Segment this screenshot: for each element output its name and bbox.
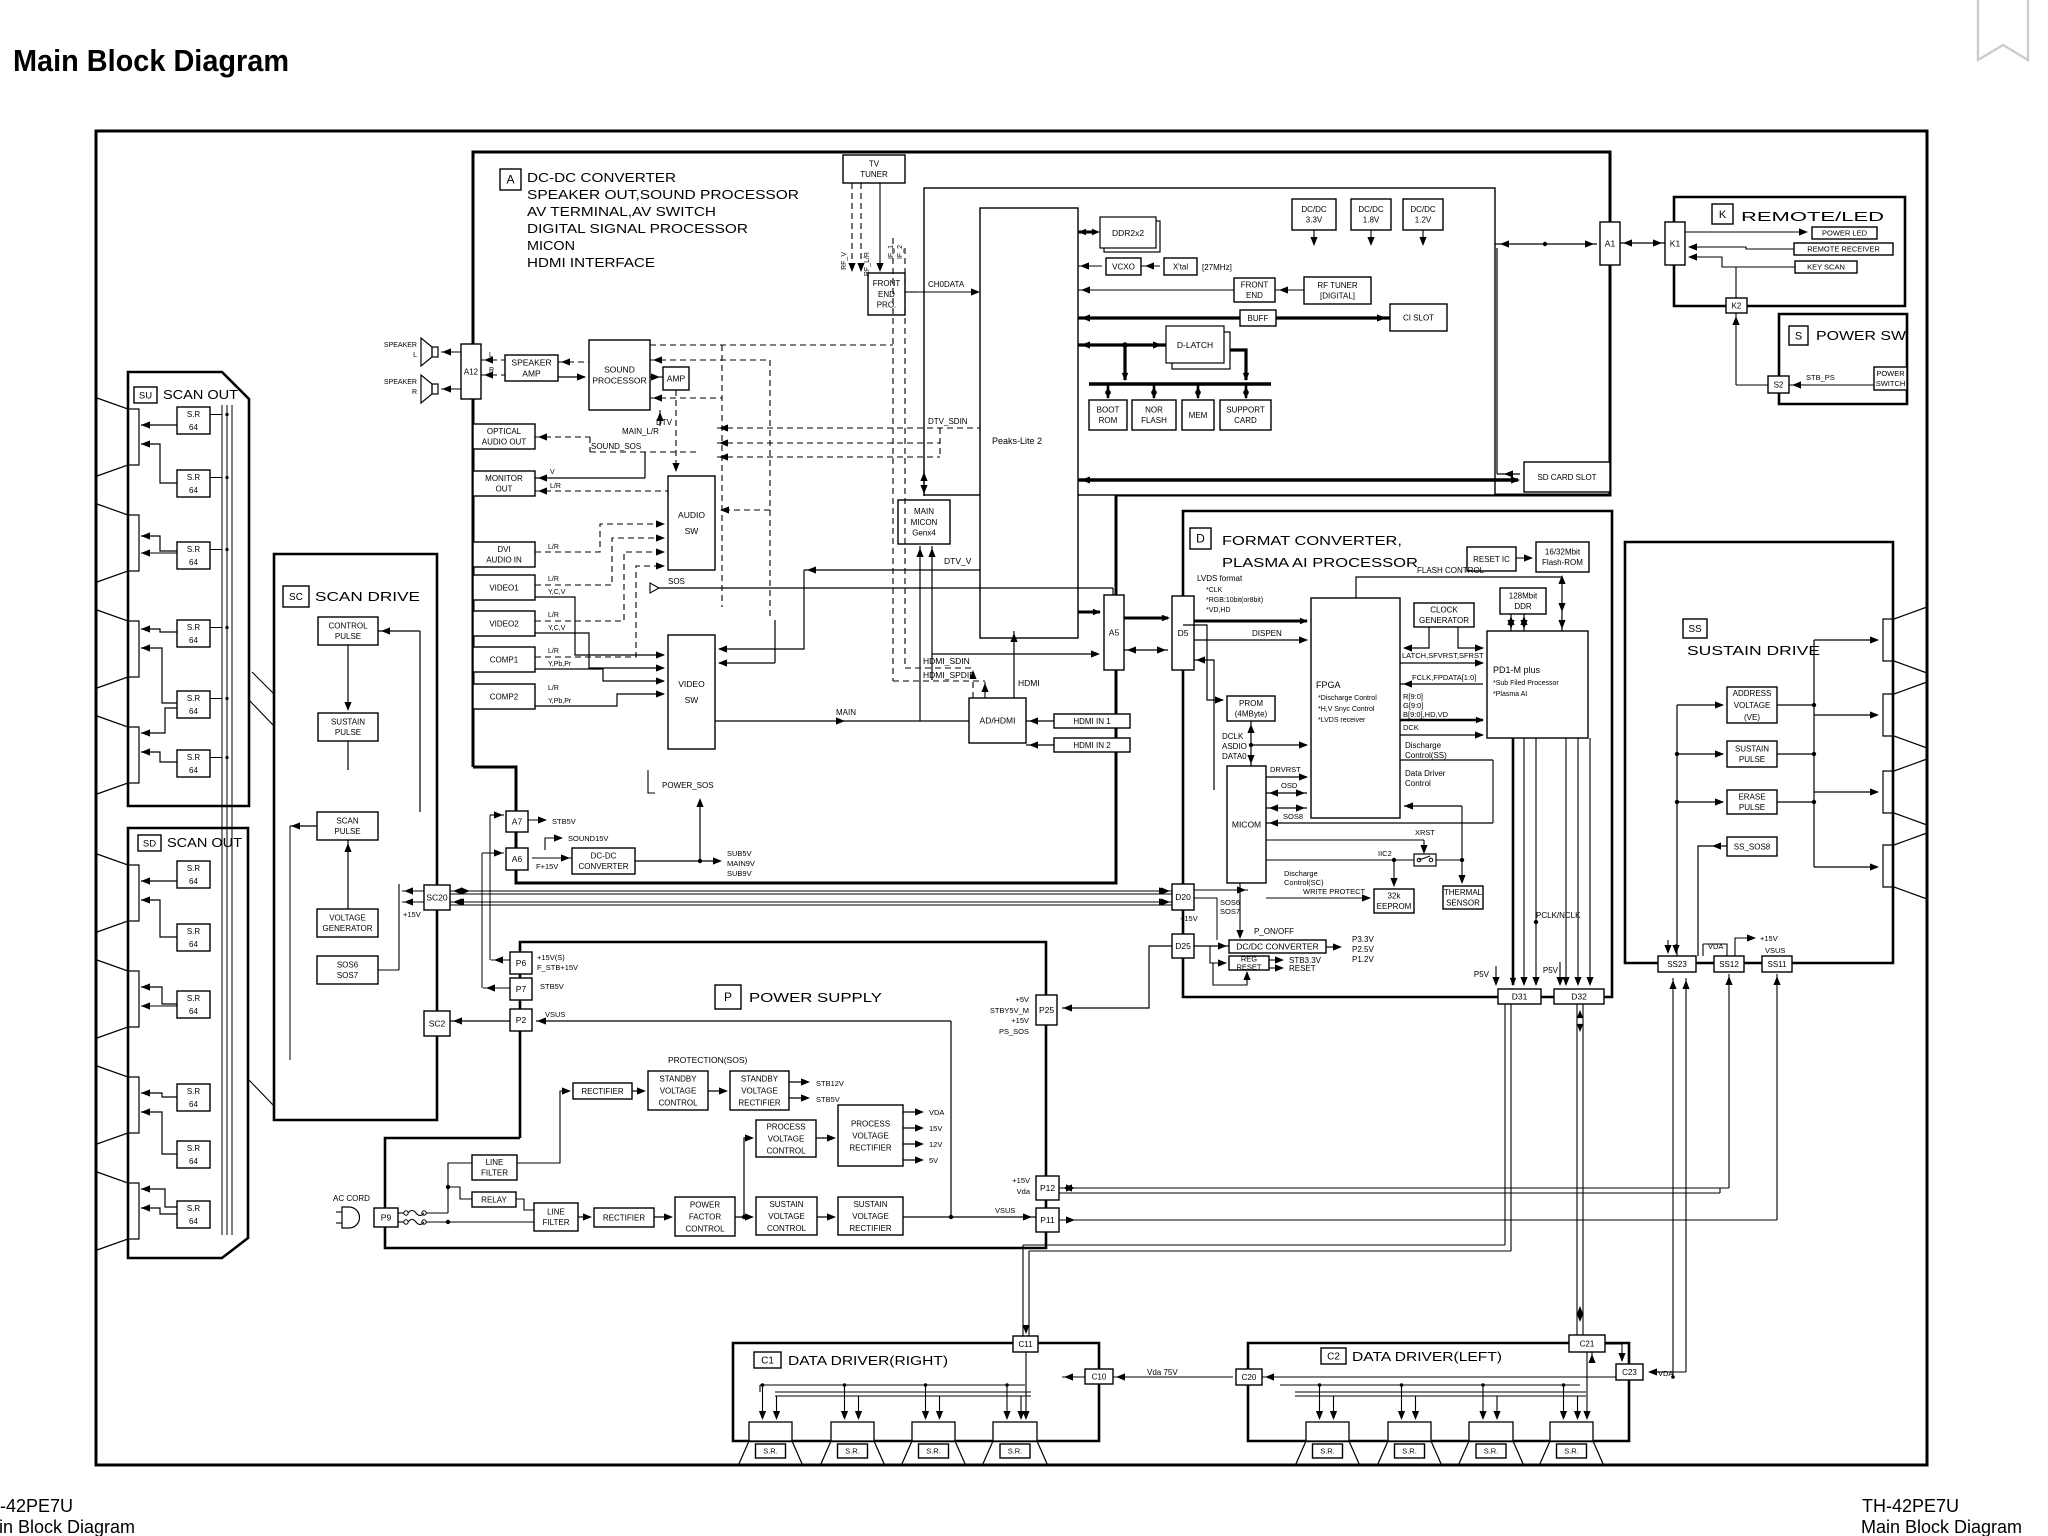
svg-text:AV TERMINAL,AV SWITCH: AV TERMINAL,AV SWITCH <box>527 204 716 219</box>
svg-text:MEM: MEM <box>1189 411 1208 420</box>
svg-text:S.R.: S.R. <box>1320 1447 1335 1456</box>
svg-text:PULSE: PULSE <box>1739 755 1765 764</box>
svg-text:R: R <box>489 367 494 374</box>
svg-text:S.R.: S.R. <box>926 1447 941 1456</box>
svg-text:P2.5V: P2.5V <box>1352 945 1374 954</box>
svg-text:FORMAT CONVERTER,: FORMAT CONVERTER, <box>1222 533 1402 548</box>
svg-text:D: D <box>1196 532 1205 546</box>
svg-text:BUFF: BUFF <box>1248 314 1269 323</box>
svg-text:SWITCH: SWITCH <box>1876 379 1906 388</box>
svg-text:12V: 12V <box>929 1140 942 1149</box>
svg-text:DC/DC: DC/DC <box>1410 205 1436 214</box>
svg-text:S.R: S.R <box>187 927 201 936</box>
svg-text:SD: SD <box>143 838 156 849</box>
svg-text:VOLTAGE: VOLTAGE <box>852 1131 889 1140</box>
svg-text:*Plasma AI: *Plasma AI <box>1493 691 1527 698</box>
svg-text:SUPPORT: SUPPORT <box>1226 406 1265 415</box>
svg-text:DCK: DCK <box>1403 723 1419 732</box>
svg-text:PLASMA AI PROCESSOR: PLASMA AI PROCESSOR <box>1222 555 1418 570</box>
svg-text:SOS7: SOS7 <box>1220 907 1240 916</box>
svg-text:P12: P12 <box>1040 1183 1055 1193</box>
svg-text:SUB5V: SUB5V <box>727 849 752 858</box>
svg-text:PULSE: PULSE <box>334 827 360 836</box>
svg-text:DC/DC: DC/DC <box>1301 205 1327 214</box>
svg-text:K: K <box>1719 209 1727 221</box>
svg-text:COMP2: COMP2 <box>490 692 519 701</box>
svg-text:PROCESSOR: PROCESSOR <box>592 376 646 386</box>
svg-text:GENERATOR: GENERATOR <box>323 924 373 933</box>
svg-text:IF_2: IF_2 <box>897 245 904 259</box>
svg-text:STANDBY: STANDBY <box>659 1074 697 1083</box>
svg-text:POWER SUPPLY: POWER SUPPLY <box>749 990 882 1005</box>
svg-text:FILTER: FILTER <box>543 1218 570 1227</box>
svg-text:SD CARD SLOT: SD CARD SLOT <box>1537 473 1596 482</box>
svg-text:HDMI_SDIN: HDMI_SDIN <box>923 656 970 666</box>
svg-text:STB5V: STB5V <box>552 817 576 826</box>
svg-text:HDMI_SPDIF: HDMI_SPDIF <box>923 670 974 680</box>
svg-text:F+15V: F+15V <box>536 862 558 871</box>
svg-text:VCXO: VCXO <box>1112 262 1135 271</box>
svg-text:VOLTAGE: VOLTAGE <box>660 1086 697 1095</box>
svg-text:Y,C,V: Y,C,V <box>548 625 566 632</box>
svg-text:Control(SC): Control(SC) <box>1284 878 1324 887</box>
svg-text:POWER LED: POWER LED <box>1822 229 1868 238</box>
svg-text:S.R: S.R <box>187 410 201 419</box>
svg-text:S.R: S.R <box>187 545 201 554</box>
svg-text:[27MHz]: [27MHz] <box>1202 263 1232 272</box>
svg-text:DCLK: DCLK <box>1222 732 1244 741</box>
svg-text:DRVRST: DRVRST <box>1270 765 1301 774</box>
svg-text:DATA0: DATA0 <box>1222 752 1247 761</box>
svg-text:P1.2V: P1.2V <box>1352 955 1374 964</box>
svg-text:RECTIFIER: RECTIFIER <box>581 1087 623 1096</box>
svg-text:SC: SC <box>289 592 303 603</box>
svg-text:Main Block Diagram: Main Block Diagram <box>0 1517 135 1536</box>
svg-text:F_STB+15V: F_STB+15V <box>537 963 578 972</box>
svg-text:RECTIFIER: RECTIFIER <box>603 1213 645 1222</box>
svg-text:64: 64 <box>189 940 198 949</box>
svg-text:POWER: POWER <box>1876 369 1905 378</box>
svg-text:P25: P25 <box>1039 1005 1054 1015</box>
svg-text:SUSTAIN: SUSTAIN <box>853 1200 887 1209</box>
svg-text:+15V(S): +15V(S) <box>537 953 565 962</box>
svg-text:16/32Mbit: 16/32Mbit <box>1545 548 1581 557</box>
svg-text:SCAN DRIVE: SCAN DRIVE <box>315 589 420 604</box>
svg-text:FPGA: FPGA <box>1316 680 1341 690</box>
svg-text:DIGITAL SIGNAL PROCESSOR: DIGITAL SIGNAL PROCESSOR <box>527 221 748 236</box>
svg-text:ERASE: ERASE <box>1738 793 1765 802</box>
svg-text:A1: A1 <box>1605 238 1616 248</box>
svg-text:32k: 32k <box>1388 892 1402 901</box>
svg-text:TH-42PE7U: TH-42PE7U <box>1862 1496 1959 1516</box>
svg-text:RECTIFIER: RECTIFIER <box>849 1143 891 1152</box>
svg-text:RESET IC: RESET IC <box>1473 555 1510 564</box>
svg-text:C23: C23 <box>1622 1368 1637 1377</box>
svg-text:C1: C1 <box>761 1356 774 1367</box>
svg-text:*LVDS receiver: *LVDS receiver <box>1318 717 1366 724</box>
svg-text:VIDEO: VIDEO <box>678 679 705 689</box>
svg-text:A7: A7 <box>512 816 523 826</box>
svg-text:VOLTAGE: VOLTAGE <box>329 914 366 923</box>
svg-text:SS: SS <box>1688 624 1702 635</box>
svg-text:A12: A12 <box>464 367 479 376</box>
svg-text:PROTECTION(SOS): PROTECTION(SOS) <box>668 1055 748 1065</box>
svg-text:Vda 75V: Vda 75V <box>1147 1368 1178 1377</box>
svg-text:D5: D5 <box>1178 628 1189 638</box>
svg-text:VOLTAGE: VOLTAGE <box>768 1134 805 1143</box>
svg-text:SUSTAIN: SUSTAIN <box>1735 745 1769 754</box>
svg-text:STB_PS: STB_PS <box>1806 373 1835 382</box>
svg-text:VSUS: VSUS <box>545 1010 565 1019</box>
svg-text:S.R.: S.R. <box>1484 1447 1499 1456</box>
svg-text:SCAN: SCAN <box>336 817 358 826</box>
svg-text:SW: SW <box>685 526 699 536</box>
svg-text:*H,V Snyc Control: *H,V Snyc Control <box>1318 706 1375 713</box>
svg-text:P3.3V: P3.3V <box>1352 935 1374 944</box>
svg-text:VDA: VDA <box>929 1108 944 1117</box>
svg-text:SOS7: SOS7 <box>337 971 359 980</box>
svg-text:CONTROL: CONTROL <box>767 1224 807 1233</box>
svg-text:SOUND_SOS: SOUND_SOS <box>591 442 641 451</box>
svg-text:S.R.: S.R. <box>845 1447 860 1456</box>
svg-text:64: 64 <box>189 1007 198 1016</box>
svg-text:PROCESS: PROCESS <box>851 1119 890 1128</box>
svg-text:VOLTAGE: VOLTAGE <box>741 1086 778 1095</box>
svg-text:A5: A5 <box>1109 627 1120 637</box>
svg-text:POWER SW: POWER SW <box>1816 328 1907 343</box>
svg-text:L/R: L/R <box>548 685 559 692</box>
svg-text:AC CORD: AC CORD <box>333 1194 370 1203</box>
svg-text:B[9:0],HD,VD: B[9:0],HD,VD <box>1403 710 1449 719</box>
svg-text:AMP: AMP <box>522 369 541 379</box>
svg-text:64: 64 <box>189 877 198 886</box>
svg-text:RESET: RESET <box>1236 963 1261 972</box>
svg-text:+15V: +15V <box>403 910 421 919</box>
svg-text:SOUND: SOUND <box>604 364 635 374</box>
svg-text:CONVERTER: CONVERTER <box>578 862 628 871</box>
svg-text:STBY5V_M: STBY5V_M <box>990 1006 1029 1015</box>
svg-text:RF_L/R: RF_L/R <box>864 252 871 276</box>
svg-text:SUSTAIN: SUSTAIN <box>769 1200 803 1209</box>
svg-text:Genx4: Genx4 <box>912 528 936 537</box>
svg-text:C10: C10 <box>1092 1372 1107 1381</box>
svg-text:+15V: +15V <box>1180 914 1198 923</box>
svg-text:64: 64 <box>189 1157 198 1166</box>
svg-text:DVI: DVI <box>497 545 510 554</box>
svg-text:IIC2: IIC2 <box>1378 849 1392 858</box>
svg-text:BOOT: BOOT <box>1097 406 1120 415</box>
svg-text:L/R: L/R <box>550 483 561 490</box>
svg-text:FRONT: FRONT <box>1241 281 1269 290</box>
svg-text:K1: K1 <box>1670 238 1681 248</box>
svg-text:SS_SOS8: SS_SOS8 <box>1734 842 1771 851</box>
svg-text:CARD: CARD <box>1234 416 1257 425</box>
svg-text:AUDIO: AUDIO <box>678 510 705 520</box>
svg-text:RESET: RESET <box>1289 964 1316 973</box>
svg-text:OSD: OSD <box>1281 781 1298 790</box>
svg-text:R: R <box>412 389 417 396</box>
svg-text:Y,Pb,Pr: Y,Pb,Pr <box>548 698 572 705</box>
svg-text:STB5V: STB5V <box>540 982 564 991</box>
svg-text:*CLK: *CLK <box>1206 587 1223 594</box>
svg-text:AUDIO OUT: AUDIO OUT <box>482 438 527 447</box>
svg-text:SUB9V: SUB9V <box>727 869 752 878</box>
svg-text:D32: D32 <box>1571 991 1587 1001</box>
svg-text:MAIN_L/R: MAIN_L/R <box>622 427 659 436</box>
svg-text:64: 64 <box>189 766 198 775</box>
svg-text:S.R: S.R <box>187 694 201 703</box>
svg-text:CI SLOT: CI SLOT <box>1403 313 1434 322</box>
svg-text:C20: C20 <box>1242 1373 1257 1382</box>
svg-text:MAIN9V: MAIN9V <box>727 859 755 868</box>
svg-text:CLOCK: CLOCK <box>1430 606 1458 615</box>
svg-text:MICOM: MICOM <box>1232 819 1261 829</box>
svg-text:CONTROL: CONTROL <box>658 1098 698 1107</box>
svg-text:P_ON/OFF: P_ON/OFF <box>1254 927 1294 936</box>
svg-text:STANDBY: STANDBY <box>741 1074 779 1083</box>
svg-text:S: S <box>1795 330 1802 342</box>
svg-text:FILTER: FILTER <box>481 1169 508 1178</box>
svg-text:1.2V: 1.2V <box>1415 216 1432 225</box>
svg-text:VSUS: VSUS <box>1765 946 1785 955</box>
svg-text:SU: SU <box>139 390 152 401</box>
svg-text:RECTIFIER: RECTIFIER <box>849 1224 891 1233</box>
svg-text:EEPROM: EEPROM <box>1377 902 1412 911</box>
svg-text:MAIN: MAIN <box>914 507 934 516</box>
svg-text:C2: C2 <box>1327 1352 1340 1363</box>
svg-text:LATCH,SFVRST,SFRST: LATCH,SFVRST,SFRST <box>1402 651 1484 660</box>
svg-text:VOLTAGE: VOLTAGE <box>1734 701 1771 710</box>
svg-text:ROM: ROM <box>1099 416 1118 425</box>
svg-text:MICON: MICON <box>527 238 575 253</box>
svg-text:Flash-ROM: Flash-ROM <box>1542 558 1583 567</box>
svg-text:S.R: S.R <box>187 473 201 482</box>
svg-text:HDMI INTERFACE: HDMI INTERFACE <box>527 255 655 270</box>
svg-text:SCAN OUT: SCAN OUT <box>167 835 242 850</box>
svg-text:DC/DC: DC/DC <box>1358 205 1384 214</box>
svg-text:Control: Control <box>1405 779 1431 788</box>
svg-text:64: 64 <box>189 423 198 432</box>
svg-text:S.R: S.R <box>187 753 201 762</box>
svg-text:PULSE: PULSE <box>335 728 361 737</box>
svg-text:[DIGITAL]: [DIGITAL] <box>1320 292 1355 301</box>
svg-text:*Discharge Control: *Discharge Control <box>1318 695 1377 702</box>
svg-text:RELAY: RELAY <box>481 1195 507 1204</box>
svg-text:SPEAKER: SPEAKER <box>384 379 417 386</box>
svg-text:S.R: S.R <box>187 1204 201 1213</box>
svg-text:A: A <box>506 173 514 187</box>
svg-text:P6: P6 <box>516 958 527 968</box>
svg-text:SOUND15V: SOUND15V <box>568 834 608 843</box>
svg-text:TH-42PE7U: TH-42PE7U <box>0 1496 73 1516</box>
svg-text:Control(SS): Control(SS) <box>1405 751 1447 760</box>
svg-text:AUDIO IN: AUDIO IN <box>486 556 522 565</box>
svg-text:+5V: +5V <box>1015 995 1029 1004</box>
svg-text:VIDEO2: VIDEO2 <box>489 619 519 628</box>
svg-text:1.8V: 1.8V <box>1363 216 1380 225</box>
svg-text:FRONT: FRONT <box>873 279 901 288</box>
svg-text:P: P <box>724 990 732 1004</box>
svg-text:VDA: VDA <box>1708 942 1723 951</box>
svg-text:CONTROL: CONTROL <box>766 1146 806 1155</box>
svg-text:C11: C11 <box>1018 1340 1033 1349</box>
svg-text:CONTROL: CONTROL <box>328 622 368 631</box>
svg-text:(4MByte): (4MByte) <box>1235 710 1268 719</box>
svg-text:PD1-M plus: PD1-M plus <box>1493 665 1541 675</box>
svg-text:VIDEO1: VIDEO1 <box>489 583 519 592</box>
svg-text:D-LATCH: D-LATCH <box>1177 340 1213 350</box>
svg-text:CONTROL: CONTROL <box>685 1224 725 1233</box>
svg-text:*VD,HD: *VD,HD <box>1206 607 1231 614</box>
svg-text:SOS6: SOS6 <box>1220 898 1240 907</box>
svg-text:MAIN: MAIN <box>836 708 856 717</box>
svg-text:FLASH: FLASH <box>1141 416 1167 425</box>
svg-text:PROCESS: PROCESS <box>766 1122 805 1131</box>
svg-text:PROM: PROM <box>1239 699 1263 708</box>
svg-text:KEY SCAN: KEY SCAN <box>1807 263 1845 272</box>
svg-text:L: L <box>413 352 417 359</box>
svg-text:P2: P2 <box>516 1015 527 1025</box>
svg-text:DTV_V: DTV_V <box>944 556 972 566</box>
svg-text:Main Block Diagram: Main Block Diagram <box>13 43 289 78</box>
svg-text:RF TUNER: RF TUNER <box>1317 281 1358 290</box>
svg-text:S.R.: S.R. <box>1402 1447 1417 1456</box>
svg-text:PULSE: PULSE <box>1739 803 1765 812</box>
svg-text:REMOTE/LED: REMOTE/LED <box>1741 209 1884 224</box>
svg-text:+15V: +15V <box>1011 1016 1029 1025</box>
svg-text:RECTIFIER: RECTIFIER <box>738 1098 780 1107</box>
svg-text:THERMAL: THERMAL <box>1444 888 1483 897</box>
svg-text:AMP: AMP <box>667 373 686 383</box>
svg-text:IF_1: IF_1 <box>888 245 895 259</box>
svg-text:Main Block Diagram: Main Block Diagram <box>1861 1517 2022 1536</box>
svg-text:LINE: LINE <box>547 1208 565 1217</box>
svg-text:DATA DRIVER(RIGHT): DATA DRIVER(RIGHT) <box>788 1353 948 1368</box>
svg-text:S.R: S.R <box>187 1144 201 1153</box>
svg-text:SPEAKER OUT,SOUND PROCESSOR: SPEAKER OUT,SOUND PROCESSOR <box>527 187 799 202</box>
svg-text:Y,Pb,Pr: Y,Pb,Pr <box>548 661 572 668</box>
svg-text:Vda: Vda <box>1017 1187 1031 1196</box>
svg-text:ASDIO: ASDIO <box>1222 742 1247 751</box>
svg-text:MICON: MICON <box>911 518 938 527</box>
svg-text:NOR: NOR <box>1145 406 1163 415</box>
svg-text:64: 64 <box>189 1100 198 1109</box>
svg-text:POWER_SOS: POWER_SOS <box>662 781 714 790</box>
svg-text:CH0DATA: CH0DATA <box>928 280 965 289</box>
svg-text:D25: D25 <box>1175 941 1191 951</box>
svg-text:RF_V: RF_V <box>841 252 848 270</box>
svg-text:LVDS format: LVDS format <box>1197 574 1243 583</box>
svg-text:SUSTAIN DRIVE: SUSTAIN DRIVE <box>1687 643 1820 658</box>
svg-text:SCAN OUT: SCAN OUT <box>163 387 238 402</box>
svg-text:FACTOR: FACTOR <box>689 1212 722 1221</box>
svg-text:64: 64 <box>189 558 198 567</box>
svg-text:S.R: S.R <box>187 1087 201 1096</box>
svg-text:P5V: P5V <box>1543 966 1559 975</box>
svg-text:Y,C,V: Y,C,V <box>548 589 566 596</box>
svg-text:DDR: DDR <box>1514 602 1532 611</box>
svg-text:L/R: L/R <box>548 648 559 655</box>
svg-text:PCLK/NCLK: PCLK/NCLK <box>1536 911 1581 920</box>
svg-text:SPEAKER: SPEAKER <box>511 357 551 367</box>
svg-text:3.3V: 3.3V <box>1306 216 1323 225</box>
svg-text:PULSE: PULSE <box>335 632 361 641</box>
svg-text:HDMI IN 2: HDMI IN 2 <box>1073 741 1111 750</box>
svg-text:+15V: +15V <box>1012 1176 1030 1185</box>
svg-text:L/R: L/R <box>548 612 559 619</box>
svg-text:HDMI IN 1: HDMI IN 1 <box>1073 717 1111 726</box>
svg-text:5V: 5V <box>929 1156 938 1165</box>
svg-text:L/R: L/R <box>548 576 559 583</box>
svg-text:AD/HDMI: AD/HDMI <box>980 715 1016 725</box>
svg-text:TUNER: TUNER <box>860 170 888 179</box>
svg-text:SS12: SS12 <box>1719 960 1739 969</box>
svg-text:D31: D31 <box>1512 991 1528 1001</box>
svg-text:XRST: XRST <box>1415 828 1435 837</box>
svg-text:FCLK,FPDATA[1:0]: FCLK,FPDATA[1:0] <box>1412 673 1476 682</box>
svg-text:OPTICAL: OPTICAL <box>487 427 522 436</box>
svg-text:HDMI: HDMI <box>1018 678 1040 688</box>
svg-text:VOLTAGE: VOLTAGE <box>768 1212 805 1221</box>
svg-text:WRITE PROTECT: WRITE PROTECT <box>1303 887 1365 896</box>
svg-text:S.R.: S.R. <box>1008 1447 1023 1456</box>
svg-text:STB12V: STB12V <box>816 1079 844 1088</box>
svg-text:REMOTE RECEIVER: REMOTE RECEIVER <box>1807 245 1880 254</box>
svg-text:VDA: VDA <box>1658 1369 1673 1378</box>
svg-text:GENERATOR: GENERATOR <box>1419 616 1469 625</box>
svg-text:DDR2x2: DDR2x2 <box>1112 228 1144 238</box>
svg-text:64: 64 <box>189 636 198 645</box>
svg-text:S.R: S.R <box>187 864 201 873</box>
svg-text:SS11: SS11 <box>1768 960 1788 969</box>
svg-text:S2: S2 <box>1774 380 1784 389</box>
svg-text:FLASH CONTROL: FLASH CONTROL <box>1417 566 1485 575</box>
svg-text:Data Driver: Data Driver <box>1405 769 1446 778</box>
svg-text:SW: SW <box>685 695 699 705</box>
svg-text:COMP1: COMP1 <box>490 655 519 664</box>
svg-text:SC2: SC2 <box>429 1018 446 1028</box>
svg-text:+15V: +15V <box>1760 934 1778 943</box>
svg-text:OUT: OUT <box>496 485 513 494</box>
svg-text:15V: 15V <box>929 1124 942 1133</box>
svg-text:Discharge: Discharge <box>1284 869 1318 878</box>
svg-text:P7: P7 <box>516 984 527 994</box>
svg-text:R[9:0]: R[9:0] <box>1403 692 1423 701</box>
svg-text:S.R.: S.R. <box>1564 1447 1579 1456</box>
svg-text:PS_SOS: PS_SOS <box>999 1027 1029 1036</box>
svg-text:A6: A6 <box>512 854 523 864</box>
svg-text:SS23: SS23 <box>1667 960 1687 969</box>
svg-text:*Sub Filed Processor: *Sub Filed Processor <box>1493 680 1559 687</box>
svg-text:*RGB:10bit(or8bit): *RGB:10bit(or8bit) <box>1206 597 1263 604</box>
svg-text:D20: D20 <box>1175 892 1191 902</box>
svg-text:DC/DC CONVERTER: DC/DC CONVERTER <box>1236 941 1319 951</box>
svg-text:END: END <box>1246 291 1263 300</box>
svg-text:SOS: SOS <box>668 577 685 586</box>
svg-text:X'tal: X'tal <box>1173 262 1189 271</box>
svg-text:G[9:0]: G[9:0] <box>1403 701 1423 710</box>
svg-text:Discharge: Discharge <box>1405 741 1442 750</box>
svg-text:SENSOR: SENSOR <box>1446 899 1480 908</box>
svg-text:S.R.: S.R. <box>763 1447 778 1456</box>
svg-text:SOS8: SOS8 <box>1283 812 1303 821</box>
svg-text:DC-DC: DC-DC <box>591 852 617 861</box>
svg-text:C21: C21 <box>1580 1339 1595 1348</box>
svg-text:P5V: P5V <box>1474 970 1490 979</box>
svg-text:S.R: S.R <box>187 994 201 1003</box>
svg-text:DATA DRIVER(LEFT): DATA DRIVER(LEFT) <box>1352 1349 1502 1364</box>
svg-text:SC20: SC20 <box>426 892 448 902</box>
